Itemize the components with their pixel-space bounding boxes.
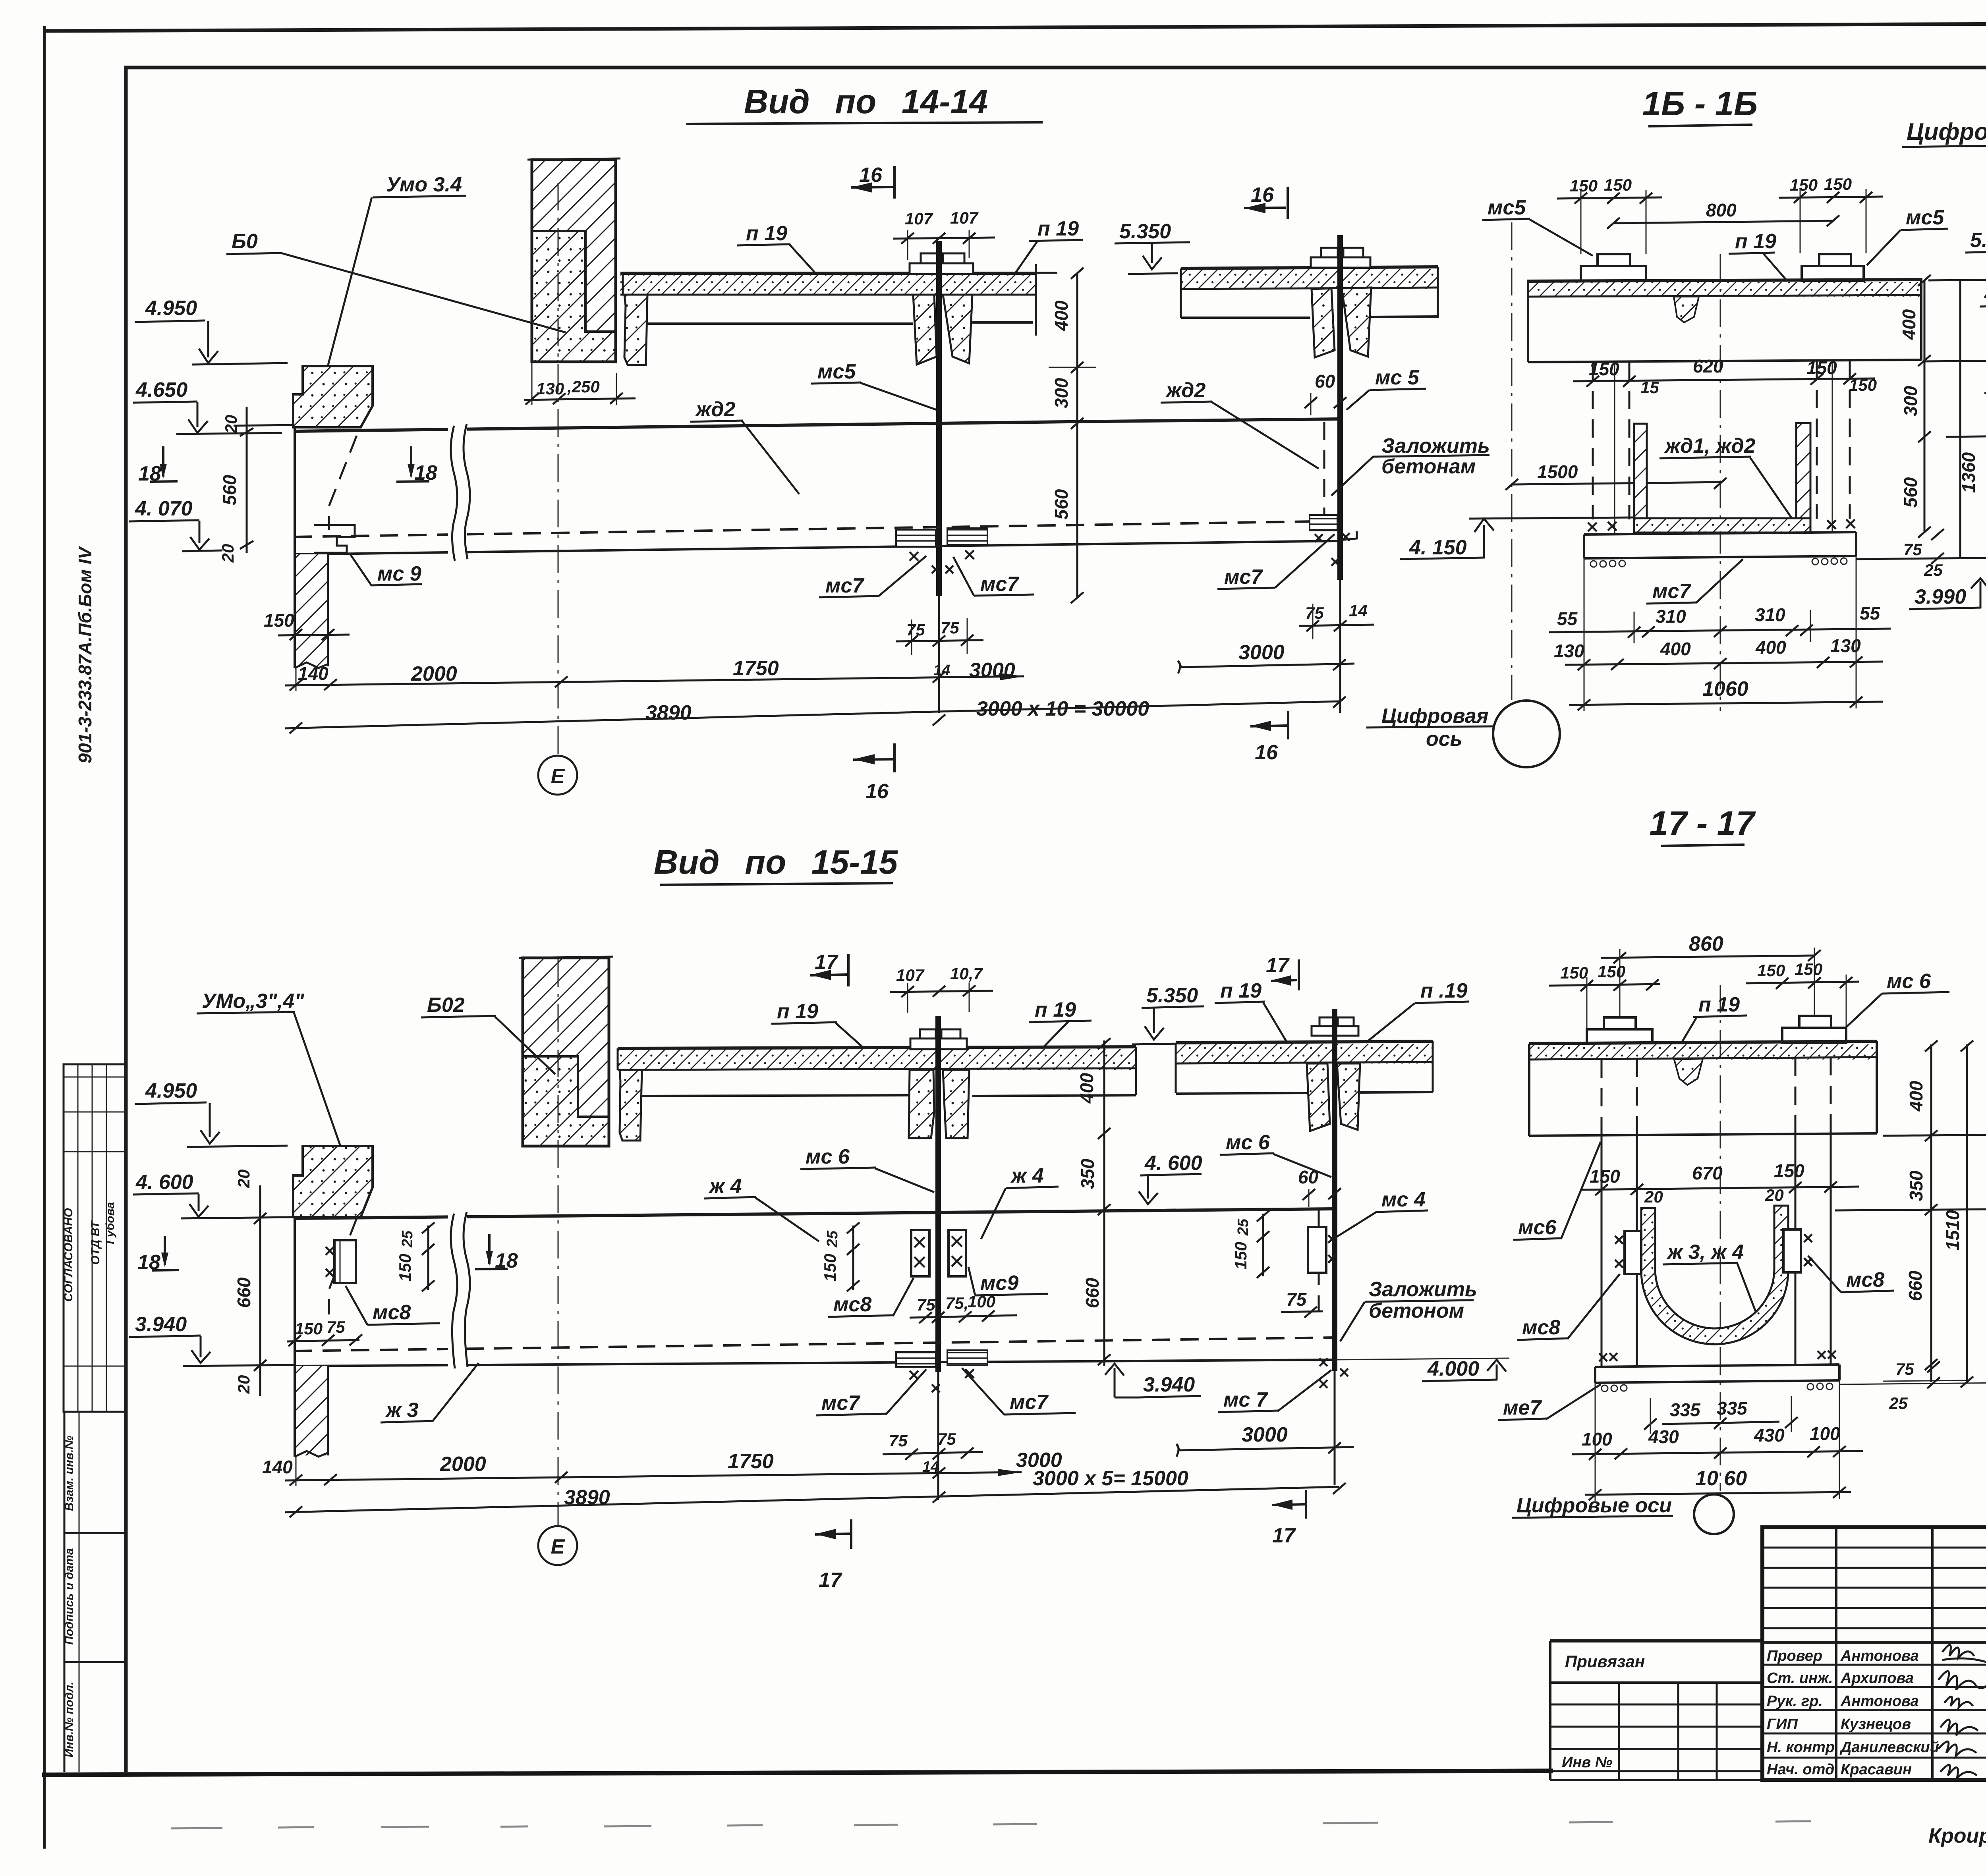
bearing pads мс7 at tie1 (896, 528, 987, 573)
svg-text:Взам. инв.№: Взам. инв.№ (63, 1436, 76, 1511)
slab band 16-16 (1528, 280, 1921, 297)
svg-text:800: 800 (1706, 200, 1737, 220)
svg-text:мс 7: мс 7 (1223, 1388, 1268, 1411)
svg-text:75: 75 (1286, 1289, 1307, 1310)
main title block frame (1762, 1527, 1986, 1780)
wall strip below beam 15-15 (295, 1366, 328, 1457)
section mark 16 top-right (1244, 183, 1288, 219)
names column (1767, 1648, 1939, 1778)
SIDEBAR (62, 546, 126, 1772)
slab seg1 band 15-15 (618, 1047, 1136, 1095)
svg-text:бетоном: бетоном (1369, 1299, 1464, 1322)
outer paper border left (43, 26, 46, 1849)
right chain 17-17 (1905, 1040, 1973, 1388)
section mark 17 bottom (815, 1519, 851, 1592)
x marks at tie bottom seg2 (1319, 1358, 1348, 1388)
svg-text:4.950: 4.950 (145, 297, 197, 320)
bracket мс4 (1308, 1227, 1336, 1273)
label ж4 left (704, 1175, 819, 1241)
svg-text:мс5: мс5 (1906, 206, 1944, 229)
svg-text:150: 150 (1824, 175, 1852, 193)
VIEW1414 (129, 83, 1634, 803)
svg-text:350: 350 (1906, 1170, 1926, 1201)
svg-text:75: 75 (937, 1430, 956, 1448)
axis line E 15-15 (558, 959, 559, 1525)
svg-text:1360: 1360 (1958, 452, 1979, 493)
label жд1 жд2 (1660, 434, 1795, 523)
label мс7 left 15-15 (816, 1369, 926, 1415)
dim 150 75 below-left (287, 1318, 362, 1346)
dim 107 107 top (890, 964, 993, 1013)
привязан table (1550, 1641, 1762, 1780)
svg-text:Цифровые оси: Цифровые оси (1517, 1494, 1672, 1517)
svg-text:СОГЛАСОВАНО: СОГЛАСОВАНО (62, 1208, 75, 1302)
svg-text:Инв.№ подл.: Инв.№ подл. (63, 1681, 76, 1757)
svg-text:335: 335 (1717, 1398, 1748, 1419)
svg-text:мс7: мс7 (821, 1392, 860, 1415)
svg-text:п 19: п 19 (777, 1000, 818, 1023)
svg-text:2000: 2000 (411, 662, 457, 685)
base plate (1584, 519, 1856, 567)
SEC1616 (1366, 85, 1986, 767)
v-notch joint (1674, 297, 1699, 322)
dim 800 (1607, 200, 1839, 229)
svg-text:Ст. инж.: Ст. инж. (1767, 1670, 1833, 1687)
bottom dim line B 15-15 (285, 1467, 1346, 1517)
label мс5 right (1867, 206, 1948, 265)
svg-text:Антонова: Антонова (1840, 1648, 1919, 1664)
svg-text:350: 350 (1077, 1158, 1098, 1189)
bracket мс9 at beam left (314, 525, 422, 585)
dims 150 150 right bolt (1779, 175, 1883, 253)
elevation 3.990 (1909, 578, 1986, 609)
slab segment1 band (620, 264, 1057, 336)
note заложить бетоном seg2 (1331, 434, 1490, 496)
rib cluster seg2 15-15 (1307, 1063, 1360, 1131)
svg-text:мс 9: мс 9 (377, 562, 421, 585)
left dim chain seg2 400/350/660 (1076, 1038, 1111, 1366)
dim 150 25 left (396, 1222, 435, 1291)
svg-text:Заложить: Заложить (1381, 434, 1490, 457)
wall face below block (294, 427, 296, 668)
svg-text:20: 20 (218, 544, 237, 563)
bolt assembly right (1802, 254, 1864, 282)
label мс8 at tie 15-15 (828, 1278, 914, 1317)
hanger dashed lines (1593, 361, 1850, 534)
svg-text:14: 14 (1349, 601, 1368, 620)
section mark 18 in beam (396, 446, 437, 484)
svg-text:75: 75 (326, 1318, 345, 1336)
right dim chain 400/300/560 (1049, 268, 1096, 603)
label мс7 seg2 (1217, 534, 1335, 589)
svg-text:мс7: мс7 (980, 573, 1019, 596)
dim 130 250 under column (524, 363, 636, 405)
svg-text:ме7: ме7 (1503, 1396, 1542, 1419)
svg-text:УМо„3",4": УМо„3",4" (202, 990, 305, 1013)
outer top border (43, 22, 1986, 31)
vertical dim 20/660/20 15-15 (234, 1170, 267, 1396)
svg-text:ж 3, ж 4: ж 3, ж 4 (1666, 1241, 1744, 1264)
dim 75 seg2 (1281, 1289, 1323, 1318)
label мс7 right 15-15 (962, 1368, 1076, 1415)
svg-text:Данилевский: Данилевский (1839, 1739, 1939, 1756)
svg-text:25: 25 (1924, 561, 1943, 579)
dim 75 75 under tie1 (896, 618, 983, 679)
pad at tie2 (1310, 515, 1357, 566)
beam body 17-17 (1529, 1041, 1877, 1136)
dims 150 620 150 (1573, 356, 1877, 397)
svg-text:ж 3: ж 3 (385, 1399, 419, 1422)
label Б02 (421, 994, 555, 1074)
label п19 (1729, 230, 1787, 281)
bearing pads мс7 15-15 (896, 1350, 987, 1392)
break symbol 15-15 (448, 1212, 470, 1369)
beam dashed 15-15 (294, 1338, 1335, 1351)
elevation 4.600 seg2 (1130, 1152, 1202, 1210)
svg-text:4.950: 4.950 (145, 1079, 197, 1102)
wall block left (УМо) (293, 366, 373, 427)
svg-text:75: 75 (1305, 604, 1324, 622)
svg-text:мс 6: мс 6 (1887, 970, 1931, 993)
dim 60 at tie2 (1304, 371, 1347, 415)
svg-text:560: 560 (1900, 477, 1921, 508)
elevation 4.950 left 15-15 (135, 1079, 288, 1147)
dims 100 430 430 100 (1572, 1423, 1863, 1460)
dims 150 150 right 17-17 (1746, 960, 1859, 1026)
dims 55 310 310 55 (1549, 603, 1891, 643)
elevation 4.600 left (133, 1171, 294, 1218)
svg-text:150: 150 (1757, 961, 1785, 980)
svg-text:мс 5: мс 5 (1375, 366, 1420, 389)
dims 130 400 400 130 (1554, 635, 1883, 670)
svg-text:130: 130 (1554, 641, 1584, 661)
svg-text:17: 17 (815, 951, 838, 974)
svg-text:150: 150 (1795, 960, 1822, 979)
slab body bottom seg2 (1181, 317, 1310, 319)
svg-text:400: 400 (1051, 300, 1072, 331)
svg-text:660: 660 (1905, 1270, 1926, 1301)
svg-text:10 60: 10 60 (1695, 1467, 1747, 1490)
svg-text:150: 150 (1560, 963, 1588, 982)
slab left end rib (623, 273, 647, 365)
svg-text:300: 300 (1900, 386, 1921, 416)
svg-text:150: 150 (1598, 962, 1625, 981)
svg-text:140: 140 (298, 663, 328, 684)
svg-text:75: 75 (1895, 1360, 1914, 1378)
label ж3 ж4 17-17 (1663, 1241, 1760, 1324)
svg-text:60: 60 (1315, 371, 1335, 392)
tie rod мс6 seg2 (1332, 1009, 1337, 1371)
view title 15-15 (654, 843, 898, 885)
bracket мс8 left 15-15 (326, 1240, 356, 1283)
svg-text:107: 107 (896, 966, 925, 984)
svg-text:Подпись и дата: Подпись и дата (63, 1548, 76, 1644)
label ж4 right (981, 1164, 1059, 1239)
svg-text:ж 4: ж 4 (1010, 1164, 1044, 1187)
svg-text:55: 55 (1860, 603, 1881, 623)
svg-text:100: 100 (1810, 1423, 1840, 1444)
label мс7 17-17 (1498, 1384, 1601, 1420)
section mark 16 top-left (851, 164, 894, 199)
view title 14-14 (686, 83, 1043, 124)
svg-text:Антонова: Антонова (1840, 1693, 1919, 1710)
elevation 3.940 left (129, 1313, 294, 1366)
vertical dim 20/560/20 (218, 407, 294, 563)
rib cluster seg1 15-15 (909, 1070, 969, 1138)
base plate 17-17 (1595, 1351, 1839, 1392)
wall face below 15-15 (294, 1217, 296, 1457)
svg-text:100: 100 (968, 1292, 995, 1311)
svg-text:п .19: п .19 (1420, 979, 1468, 1002)
svg-text:560: 560 (219, 475, 240, 505)
label п19 seg1 right (1015, 217, 1083, 273)
dim 107 107 (893, 208, 995, 260)
dims 335 335 (1644, 1396, 1798, 1434)
svg-text:150: 150 (1231, 1242, 1250, 1270)
svg-text:Б02: Б02 (427, 994, 465, 1017)
svg-text:55: 55 (1557, 608, 1578, 629)
svg-text:16: 16 (1255, 741, 1278, 764)
slab body bottom seg1 15-15 (642, 1095, 912, 1096)
bolt right 17-17 (1782, 1016, 1846, 1043)
label жд2 seg1 (690, 398, 799, 494)
svg-text:75: 75 (941, 618, 959, 637)
svg-text:Кузнецов: Кузнецов (1841, 1716, 1911, 1733)
svg-text:560: 560 (1051, 489, 1072, 519)
svg-text:5.330: 5.330 (1970, 229, 1986, 252)
elevation 4.600 17-17 (1835, 1168, 1986, 1216)
svg-text:2000: 2000 (440, 1453, 486, 1476)
elevation 5.350 mid (1115, 220, 1190, 274)
slab body bottom seg1 (647, 322, 913, 325)
side bracket right 17-17 (1783, 1229, 1812, 1272)
dim 150 left wall (264, 610, 350, 640)
lower sidebar cells (64, 1411, 126, 1413)
svg-text:3000: 3000 (1242, 1423, 1288, 1446)
svg-text:Губова: Губова (104, 1202, 117, 1244)
svg-text:мс8: мс8 (373, 1301, 411, 1324)
label мс8 left 17-17 (1517, 1274, 1620, 1340)
hidden dashed edge at wall (329, 436, 357, 530)
svg-text:5.350: 5.350 (1146, 984, 1198, 1007)
dims 75 25 right (1903, 529, 1944, 579)
svg-text:ось: ось (1426, 728, 1462, 751)
svg-text:Е: Е (551, 765, 565, 788)
svg-text:Провер: Провер (1767, 1648, 1822, 1664)
svg-text:3.990: 3.990 (1915, 585, 1966, 608)
svg-text:п 19: п 19 (1035, 998, 1076, 1021)
svg-text:1510: 1510 (1942, 1210, 1963, 1251)
section mark 17 bottom right (1272, 1490, 1306, 1547)
svg-text:ГИП: ГИП (1767, 1716, 1798, 1733)
label мс7 left (819, 556, 926, 597)
svg-text:25: 25 (1889, 1394, 1908, 1413)
beam top 15-15 (294, 1209, 1335, 1218)
svg-text:мс7: мс7 (1010, 1391, 1049, 1414)
label п19 s1-left (771, 1000, 866, 1050)
dim 150 25 at tie 15-15 (821, 1222, 860, 1291)
svg-text:Цифровая: Цифровая (1381, 704, 1488, 728)
svg-text:3000: 3000 (1238, 641, 1285, 664)
section mark 16 bottom-right (1250, 711, 1288, 764)
label мс6 seg1 (800, 1145, 934, 1192)
beam body 16-16 (1528, 278, 1921, 362)
dim 3000 seg2 15-15 (1177, 1423, 1354, 1457)
note заложить бетоном 15-15 (1340, 1278, 1477, 1341)
svg-text:25: 25 (824, 1230, 841, 1248)
tie rod мс5 seg1 (936, 241, 942, 596)
svg-text:310: 310 (1755, 604, 1785, 625)
hanger straps (1602, 1057, 1831, 1366)
axis circle bottom (цифровая ось) (1366, 701, 1560, 767)
svg-text:1Б - 1Б: 1Б - 1Б (1642, 85, 1758, 123)
svg-text:620: 620 (1693, 356, 1723, 376)
svg-text:4.950: 4.950 (1984, 283, 1986, 306)
svg-text:20: 20 (234, 1375, 253, 1394)
label п19 seg2-left (1215, 979, 1288, 1044)
elevation 3.940 seg2 (1105, 1364, 1201, 1397)
svg-text:Рук. гр.: Рук. гр. (1767, 1693, 1823, 1710)
dims 150 670 150 (1581, 1160, 1859, 1206)
svg-text:Умо 3.4: Умо 3.4 (386, 173, 462, 196)
svg-text:4. 600: 4. 600 (135, 1171, 193, 1194)
bottom heavy border (42, 1771, 1553, 1775)
dims 150 150 left bolt (1557, 176, 1662, 254)
svg-text:150: 150 (821, 1254, 839, 1282)
svg-text:мс 4: мс 4 (1381, 1188, 1426, 1211)
svg-text:17: 17 (1272, 1524, 1296, 1547)
svg-text:14: 14 (933, 662, 950, 679)
label мс8 left 15-15 (346, 1286, 440, 1325)
dim 3000 seg2 (1178, 641, 1354, 674)
svg-text:10,7: 10,7 (950, 964, 983, 983)
svg-text:Е: Е (551, 1535, 565, 1558)
svg-text:Б0: Б0 (232, 230, 258, 253)
dim 60 seg2 (1298, 1167, 1341, 1207)
anchor plate on slab at tie1 (910, 253, 973, 274)
section mark 18 left 15-15 (137, 1236, 179, 1274)
label Б0 (226, 230, 566, 332)
dims 150 150 left 17-17 (1549, 962, 1660, 1029)
svg-text:150: 150 (295, 1319, 323, 1338)
label мс5 left (1482, 196, 1593, 256)
svg-text:мс8: мс8 (1846, 1268, 1884, 1291)
elevation 4.650 left (133, 378, 282, 434)
svg-text:310: 310 (1656, 606, 1686, 627)
svg-text:1750: 1750 (733, 657, 779, 680)
section mark 18 left (138, 446, 178, 485)
dim 1060 17-17 (1585, 1380, 1851, 1501)
svg-text:Вид по 15-15: Вид по 15-15 (654, 843, 898, 881)
svg-text:4.650: 4.650 (135, 378, 187, 401)
svg-text:150: 150 (1774, 1160, 1804, 1181)
svg-text:1060: 1060 (1702, 677, 1748, 701)
label жд2 seg2 (1161, 379, 1319, 469)
svg-text:150: 150 (1590, 1166, 1620, 1187)
label Цифровые оси bottom (1512, 1494, 1734, 1534)
dim 75 14 at tie2 (1299, 601, 1374, 639)
svg-text:400: 400 (1755, 637, 1786, 658)
dim 75 75 100 at tie 15-15 (910, 1292, 1017, 1323)
right vertical chain 16-16 (1899, 275, 1979, 558)
svg-text:3890: 3890 (645, 701, 692, 724)
svg-text:400: 400 (1899, 309, 1919, 340)
dim 1060 (1569, 556, 1883, 711)
svg-text:16: 16 (1251, 183, 1274, 207)
svg-text:75: 75 (1903, 540, 1922, 559)
digital axis line (1511, 222, 1513, 700)
label мс6 left 17-17 (1513, 1142, 1601, 1240)
svg-text:1500: 1500 (1537, 461, 1578, 482)
svg-text:3.940: 3.940 (135, 1313, 187, 1336)
hidden dashed edge at tie2 15-15 (1318, 1210, 1320, 1310)
faint bottom dashes (171, 1821, 1811, 1828)
label мс4 (1331, 1188, 1428, 1241)
elevation 5.330 (1928, 229, 1986, 280)
svg-text:400: 400 (1076, 1073, 1097, 1104)
dims 75 25 17-17 (1883, 1360, 1970, 1413)
anchor plate at tie 15-15 (910, 1029, 967, 1049)
column Б0 (527, 158, 620, 362)
svg-text:Н. контр.: Н. контр. (1767, 1739, 1839, 1756)
svg-text:п 19: п 19 (1037, 217, 1079, 240)
svg-text:150: 150 (1570, 176, 1598, 195)
elevation 4.000 (1335, 1357, 1509, 1381)
svg-text:130: 130 (536, 379, 564, 398)
SEC1717 (1498, 805, 1986, 1534)
label мс5 seg1 (811, 360, 937, 410)
elevation 4.070 left (129, 497, 222, 551)
column axis circle E (538, 756, 577, 795)
label Цифровые оси (1902, 118, 1986, 297)
centerline (1720, 254, 1721, 711)
tie brackets мс8 мс9 15-15 (911, 1230, 966, 1276)
section mark 17 top seg2 (1266, 954, 1299, 990)
label п19 seg2-right (1366, 979, 1469, 1043)
svg-text:17: 17 (1266, 954, 1290, 977)
svg-text:4. 070: 4. 070 (135, 497, 193, 520)
svg-text:430: 430 (1754, 1425, 1785, 1446)
svg-text:Цифровые оси: Цифровые оси (1907, 118, 1986, 145)
svg-text:660: 660 (1082, 1278, 1103, 1308)
label п19 s1-right (1029, 998, 1092, 1049)
label УМо 3,4 (197, 990, 350, 1172)
svg-text:17 - 17: 17 - 17 (1650, 805, 1756, 842)
svg-text:Вид по 14-14: Вид по 14-14 (744, 83, 988, 121)
svg-text:75: 75 (889, 1431, 908, 1450)
svg-text:335: 335 (1670, 1399, 1701, 1420)
slab left end rib 15-15 (618, 1048, 642, 1141)
svg-text:1750: 1750 (728, 1450, 774, 1473)
v-notch 17-17 (1674, 1059, 1703, 1085)
svg-text:мс 6: мс 6 (1226, 1131, 1270, 1154)
svg-text:4.000: 4.000 (1427, 1357, 1479, 1380)
svg-text:п 19: п 19 (1220, 979, 1262, 1002)
svg-text:Инв №: Инв № (1562, 1754, 1612, 1771)
svg-text:400: 400 (1906, 1081, 1926, 1112)
tie rod мс5 seg2 (1337, 235, 1343, 580)
wall strip below beam (295, 554, 328, 668)
section title 17-17 (1650, 805, 1756, 846)
dim 860 (1601, 932, 1821, 1017)
column Б02 (519, 957, 613, 1146)
svg-text:мс8: мс8 (1522, 1316, 1560, 1339)
label п19 17-17 (1681, 993, 1747, 1044)
svg-text:75,: 75, (945, 1294, 968, 1312)
svg-text:860: 860 (1689, 932, 1723, 955)
svg-text:670: 670 (1692, 1163, 1723, 1183)
slab segment2 band (1181, 267, 1438, 318)
